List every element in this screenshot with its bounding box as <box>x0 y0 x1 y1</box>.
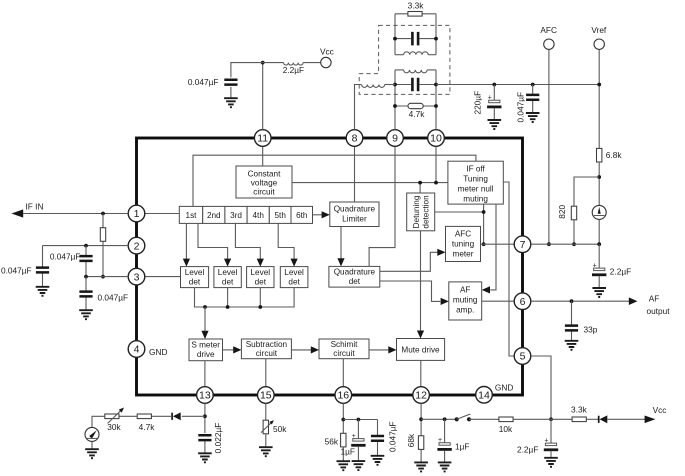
svg-text:GND: GND <box>149 347 167 357</box>
svg-text:4.7k: 4.7k <box>409 109 426 119</box>
junction Vref/tank wire <box>597 83 601 87</box>
svg-text:Tuning: Tuning <box>463 174 488 183</box>
wire diode to Vcc arrow <box>607 418 645 420</box>
capacitor 0.047uF (AFC filter) <box>515 85 539 123</box>
arrow Subtraction circuit to Schimit circuit <box>291 346 319 353</box>
pin 2 <box>128 237 145 254</box>
svg-text:Level: Level <box>185 268 205 277</box>
resistor 10k <box>499 417 513 434</box>
svg-text:0.047µF: 0.047µF <box>50 252 81 262</box>
wire AF muting amp to pin 6 <box>482 300 515 302</box>
svg-text:drive: drive <box>197 350 215 359</box>
meter (tuning meter, vertical needle) <box>592 205 606 219</box>
arrow 2nd amp to Level det 2 <box>198 223 231 266</box>
terminal Vcc (top) <box>320 46 334 67</box>
wire 68k to ground <box>420 449 422 462</box>
svg-text:IF off: IF off <box>466 164 485 173</box>
svg-text:Detuning: Detuning <box>412 195 421 228</box>
dashed enclosure (discriminator block) <box>359 25 450 94</box>
wire IF off box right to pin 5 <box>503 182 514 356</box>
ground (pin3 cap) <box>79 310 93 319</box>
block: Mute drive <box>397 339 445 361</box>
wire pin 1 to 1st amp <box>145 213 179 215</box>
wire coil to tank2 <box>385 84 395 86</box>
wire pin 2 left <box>43 245 129 247</box>
svg-text:56k: 56k <box>325 437 339 447</box>
svg-text:14: 14 <box>478 390 490 402</box>
junction 1uF pin12 <box>443 417 447 421</box>
svg-text:4: 4 <box>134 344 140 356</box>
junction bus/S-meter <box>203 305 207 309</box>
ground (1uF pin12) <box>438 462 452 471</box>
junction 220uF branch <box>492 83 496 87</box>
junction pin5/bottom rail <box>549 417 553 421</box>
wire Detuning detection to IF off vertical <box>435 211 484 213</box>
junction AFC/pin7 wire <box>547 242 551 246</box>
arrow 6th amp to Quadrature Limiter <box>313 211 330 218</box>
inductor secondary winding <box>395 70 436 73</box>
block: Level det 4 <box>280 267 308 288</box>
resistor 68k <box>406 433 424 449</box>
pin 6 <box>514 293 531 310</box>
wire IF off box to pin7 net (vertical) <box>483 204 485 244</box>
block: S meter drive <box>189 339 223 361</box>
svg-text:IF IN: IF IN <box>26 202 44 212</box>
block: amplifier 5th <box>269 206 291 223</box>
wire Subtraction circuit to pin 15 <box>265 359 267 387</box>
junction 4.7k right <box>434 104 438 108</box>
inductor coupling coil (pin 8) <box>362 85 385 88</box>
svg-text:Vref: Vref <box>591 25 607 35</box>
pin 16 <box>335 387 352 404</box>
svg-text:det: det <box>189 278 201 287</box>
svg-text:meter null: meter null <box>458 184 494 193</box>
svg-text:0.047µF: 0.047µF <box>515 92 525 123</box>
diode (S meter) <box>172 412 181 420</box>
ground (S meter) <box>85 441 99 458</box>
block: AFC tuning meter <box>446 226 481 261</box>
svg-text:8: 8 <box>352 133 358 145</box>
svg-text:3rd: 3rd <box>230 211 242 220</box>
svg-text:33p: 33p <box>584 325 598 335</box>
ground (0.047uF AFC) <box>526 113 540 122</box>
resistor 56k <box>325 433 346 447</box>
wire diode to 4.7k <box>137 415 172 417</box>
capacitor 2.2uF electrolytic (pin7) <box>592 244 631 287</box>
block: AF muting amp. <box>449 282 482 320</box>
svg-text:detection: detection <box>422 195 431 229</box>
wire tank2 right side down to pin 10 <box>435 70 437 130</box>
wire 3.3k to diode <box>586 418 598 420</box>
svg-text:7: 7 <box>520 239 526 251</box>
svg-text:GND: GND <box>495 383 513 393</box>
block: Constant voltage circuit <box>236 166 292 198</box>
wire S meter drive to pin 13 <box>204 361 206 387</box>
junction meter/pin7 wire <box>597 242 601 246</box>
ground (far left cap) <box>36 287 50 296</box>
wire 10k to bottom rail <box>513 418 551 420</box>
arrow Schimit circuit to Mute drive <box>369 346 397 353</box>
ground (0.022uF) <box>198 453 212 462</box>
wire switch to 10k <box>469 418 499 420</box>
capacitor 1uF electrolytic (pin12) <box>437 419 469 462</box>
svg-text:0.047µF: 0.047µF <box>388 421 398 452</box>
junction detuning/IFoff vertical <box>482 210 486 214</box>
svg-text:2nd: 2nd <box>207 211 221 220</box>
svg-text:AFC: AFC <box>455 229 471 238</box>
wire bottom rail to 3.3k <box>551 418 572 420</box>
junction Vcc node <box>261 61 265 65</box>
resistor 4.7k <box>395 103 436 119</box>
arrow Quadrature det to AFC tuning meter <box>380 249 446 272</box>
wire pin 8 to Quadrature Limiter <box>354 146 356 202</box>
svg-text:Quadrature: Quadrature <box>334 268 376 277</box>
svg-text:10k: 10k <box>499 424 513 434</box>
wire tank2 left side down to pin 9 <box>394 70 396 130</box>
block: amplifier 1st <box>179 206 202 223</box>
wire Detuning detection top stub <box>419 183 421 193</box>
terminal AFC <box>540 25 557 49</box>
ground (2.2uF pin7) <box>592 288 606 297</box>
ground (33p) <box>565 341 579 350</box>
diode (Vcc feed) <box>599 415 608 423</box>
svg-text:det: det <box>255 278 267 287</box>
resistor 3.3k <box>395 1 436 17</box>
pin 13 <box>197 387 214 404</box>
junction pin3/caps <box>84 275 88 279</box>
svg-text:1st: 1st <box>186 211 198 220</box>
block: Detuning detection (rotated text) <box>407 193 435 231</box>
svg-text:Constant: Constant <box>248 170 281 179</box>
wire pin 13 down <box>204 403 206 433</box>
capacitor 0.022uF <box>198 423 223 454</box>
svg-text:15: 15 <box>260 390 272 402</box>
svg-text:11: 11 <box>257 133 268 145</box>
wire 820 to pin7 net <box>573 220 575 244</box>
svg-text:0.022µF: 0.022µF <box>213 423 223 454</box>
svg-text:S meter: S meter <box>191 341 220 350</box>
pin 7 <box>514 236 531 253</box>
arrow bus to S meter drive <box>201 307 208 339</box>
junction 33p branch <box>570 299 574 303</box>
junction 1uF pin16 <box>357 418 361 422</box>
pin 11 <box>254 130 271 147</box>
wire IF IN to pin 1 <box>23 213 128 215</box>
pin 12 <box>413 387 430 404</box>
svg-text:Quadrature: Quadrature <box>334 205 376 214</box>
svg-text:det: det <box>288 278 300 287</box>
resistor 3.3k (bottom) <box>571 405 588 422</box>
svg-text:16: 16 <box>337 390 349 402</box>
wire pin16 branch rail <box>343 419 377 421</box>
svg-text:Limiter: Limiter <box>342 215 367 224</box>
capacitor 0.047uF (far left) <box>1 246 49 287</box>
ground (50k) <box>259 447 273 456</box>
svg-text:Vcc: Vcc <box>653 405 667 415</box>
svg-text:Level: Level <box>218 268 238 277</box>
block: Quadrature Limiter <box>330 202 379 227</box>
svg-text:output: output <box>646 306 670 316</box>
ground (2.2uF bottom) <box>544 458 558 467</box>
potentiometer 30k <box>105 408 124 432</box>
junction pin10/rail <box>434 181 438 185</box>
IC package outline <box>137 138 523 395</box>
svg-text:det: det <box>349 277 361 286</box>
ground (1uF pin16) <box>352 461 366 470</box>
arrow Quadrature Limiter to Quadrature det <box>337 227 344 267</box>
junction bus/LD2 <box>226 305 230 309</box>
wire 6.8k to meter <box>598 162 600 205</box>
wire meter to pin7 net <box>598 219 600 244</box>
svg-text:det: det <box>222 278 234 287</box>
svg-text:3.3k: 3.3k <box>408 1 425 11</box>
wire 56k to ground <box>342 447 344 461</box>
wire pin 5 external to bottom rail <box>531 356 551 419</box>
svg-text:2.2µF: 2.2µF <box>517 445 538 455</box>
arrow Detuning detection to Mute drive <box>417 231 424 339</box>
wire pin 3 to Level det 1 <box>145 276 181 278</box>
block: Quadrature det <box>329 266 380 287</box>
svg-text:muting: muting <box>463 194 488 203</box>
resistor 6.8k <box>597 148 623 162</box>
svg-text:2: 2 <box>134 240 140 252</box>
pin 5 <box>514 348 531 365</box>
svg-text:68k: 68k <box>406 433 416 447</box>
inductor primary winding <box>395 52 436 55</box>
potentiometer 50k <box>261 420 287 434</box>
terminal IF IN arrow <box>12 202 44 218</box>
junction pin16 branch <box>341 418 345 422</box>
arrow Quadrature det to AF muting amp <box>380 281 449 305</box>
resistor (input, unlabelled) <box>100 214 105 277</box>
capacitor 0.047uF (Vcc bypass) <box>188 77 238 97</box>
arrow IF off box to AF muting amp <box>482 204 496 293</box>
arrow 1st amp to Level det 1 <box>183 223 190 266</box>
wire pin 11 stub to Constant voltage circuit <box>262 146 264 166</box>
wire to 820 <box>574 177 599 206</box>
resistor 820 <box>557 204 577 219</box>
svg-text:circuit: circuit <box>256 349 278 358</box>
junction tank2 cap right <box>434 83 438 87</box>
wire Level det summing bus <box>195 288 295 307</box>
junction IFIN/resistor <box>101 212 105 216</box>
block: amplifier 2nd <box>203 206 225 223</box>
svg-text:4.7k: 4.7k <box>139 422 156 432</box>
ground (Vcc bypass) <box>224 98 238 107</box>
wire pin 11 up <box>262 63 264 130</box>
pin 14 <box>476 387 493 404</box>
switch (muting) <box>455 414 472 421</box>
capacitor 0.047uF (pin2 to pin3) <box>50 246 93 277</box>
capacitor 0.047uF (pin16) <box>371 420 398 456</box>
svg-text:Level: Level <box>251 268 271 277</box>
svg-text:6: 6 <box>520 296 526 308</box>
ground (220uF) <box>488 120 502 129</box>
wire 50k to ground <box>265 434 267 447</box>
svg-text:2.2µF: 2.2µF <box>283 65 304 75</box>
svg-text:0.047µF: 0.047µF <box>188 77 219 87</box>
svg-text:AFC: AFC <box>540 25 557 35</box>
pin 15 <box>258 387 275 404</box>
junction detuning/rail <box>418 181 422 185</box>
svg-text:Schimit: Schimit <box>331 340 359 349</box>
block: IF off Tuning meter null muting <box>448 161 503 204</box>
capacitor 0.047uF (pin3 to gnd) <box>79 277 128 310</box>
wire tank1 right side <box>435 14 437 55</box>
pin 1 <box>128 205 145 222</box>
svg-text:amp.: amp. <box>456 305 474 314</box>
junction 820/pin7 wire <box>572 242 576 246</box>
capacitor 1uF electrolytic (pin16) <box>341 420 366 461</box>
svg-text:muting: muting <box>453 295 478 304</box>
svg-text:3: 3 <box>134 271 140 283</box>
wire node to bypass cap <box>231 63 263 78</box>
block: Level det 3 <box>247 267 274 288</box>
wire pin 6 to AF output <box>531 300 629 302</box>
wire pin 16 down <box>342 403 344 433</box>
junction 0.047uF branch <box>531 83 535 87</box>
svg-text:voltage: voltage <box>251 179 278 188</box>
inductor 2.2uF (Vcc feed) <box>263 63 321 75</box>
pin 10 <box>428 130 445 147</box>
svg-text:0.047µF: 0.047µF <box>1 265 32 275</box>
wire Constant voltage circuit to IF off box (rail) <box>292 182 448 184</box>
svg-text:12: 12 <box>415 390 427 402</box>
block: Level det 1 <box>181 267 209 288</box>
wire tank2 to Vref line <box>436 84 599 86</box>
svg-text:13: 13 <box>199 390 211 402</box>
wire pin 3 left <box>86 276 128 278</box>
junction 820 branch <box>597 175 601 179</box>
wire pin13 branch to diode <box>182 415 205 417</box>
svg-text:Subtraction: Subtraction <box>246 340 288 349</box>
junction bus/LD3 <box>258 305 262 309</box>
arrow 3rd amp to Level det 3 <box>235 223 264 266</box>
svg-text:6th: 6th <box>296 211 308 220</box>
junction resistor/pin3 wire <box>101 275 105 279</box>
junction tank1 cap left <box>393 37 397 41</box>
capacitor 220uF electrolytic <box>472 85 501 120</box>
svg-text:AF: AF <box>460 285 470 294</box>
pin 4 <box>128 341 145 358</box>
svg-text:6.8k: 6.8k <box>606 150 623 160</box>
block: Subtraction circuit <box>241 339 291 359</box>
block: amplifier 3rd <box>225 206 247 223</box>
junction IFoff vertical/pin7 wire <box>482 242 486 246</box>
wire pin 10 stub to rail <box>435 146 437 182</box>
capacitor tank2 <box>395 78 436 92</box>
arrow 5th amp to Level det 4 <box>278 223 298 266</box>
terminal AF output arrow <box>629 293 670 316</box>
svg-text:220µF: 220µF <box>472 91 482 115</box>
wire AFC down to pin7 net <box>548 49 550 244</box>
svg-text:820: 820 <box>557 204 567 218</box>
svg-text:Level: Level <box>284 268 304 277</box>
wire Schimit circuit to pin 16 <box>342 359 344 387</box>
junction pin12 branch <box>419 417 423 421</box>
wire tank1 left side <box>394 14 396 55</box>
capacitor 33p <box>565 301 598 340</box>
svg-text:5: 5 <box>520 351 526 363</box>
ground (68k) <box>414 462 428 471</box>
svg-text:1: 1 <box>134 208 140 220</box>
wire 4.7k to 30k <box>119 415 137 417</box>
junction tank1 cap right <box>434 37 438 41</box>
wire AFC tuning meter to pin 7 <box>481 243 515 245</box>
svg-text:10: 10 <box>430 133 442 145</box>
junction 4.7k left <box>393 104 397 108</box>
wire pin 9 to Quadrature det <box>369 146 395 266</box>
svg-text:1µF: 1µF <box>341 446 355 456</box>
svg-text:9: 9 <box>392 133 398 145</box>
svg-text:tuning: tuning <box>452 239 475 248</box>
svg-text:30k: 30k <box>107 422 121 432</box>
block: amplifier 6th <box>291 206 313 223</box>
svg-text:50k: 50k <box>273 424 287 434</box>
wire Mute drive to pin 12 <box>420 360 422 386</box>
ground (0.047uF pin16) <box>371 456 385 465</box>
capacitor 2.2uF electrolytic (bottom) <box>517 419 558 457</box>
capacitor tank1 <box>395 32 436 46</box>
svg-text:Mute drive: Mute drive <box>401 346 440 355</box>
wire pin 12 down <box>420 403 422 435</box>
pin 3 <box>128 268 145 285</box>
block: amplifier 4th <box>247 206 269 223</box>
block: Level det 2 <box>214 267 241 288</box>
svg-text:5th: 5th <box>275 211 287 220</box>
wire 30k to meter <box>92 416 105 427</box>
svg-text:circuit: circuit <box>253 188 275 197</box>
svg-text:3.3k: 3.3k <box>571 405 588 415</box>
wire pin 15 down <box>265 403 267 420</box>
junction pin13 branch <box>203 414 207 418</box>
pin 8 <box>346 130 363 147</box>
svg-text:0.047µF: 0.047µF <box>98 293 129 303</box>
wire pin 7 external <box>531 243 599 245</box>
pin 9 <box>387 130 404 147</box>
meter (S meter, diagonal needle) <box>85 427 99 441</box>
ground (56k) <box>337 461 351 470</box>
wire top rail 1st-amp to IF off box top <box>193 155 476 206</box>
junction pin2 wire/cap branch <box>84 244 88 248</box>
svg-text:AF: AF <box>649 293 660 303</box>
arrow S meter drive to Subtraction circuit <box>223 346 242 353</box>
svg-text:2.2µF: 2.2µF <box>610 266 631 276</box>
wire pin 8 up <box>355 85 362 130</box>
terminal Vcc arrow (bottom) <box>645 405 667 423</box>
svg-text:4th: 4th <box>253 211 265 220</box>
wire pin12 to switch <box>421 418 457 420</box>
resistor 4.7k (S meter) <box>137 414 155 432</box>
svg-text:circuit: circuit <box>333 349 355 358</box>
terminal Vref <box>591 25 607 49</box>
svg-text:Vcc: Vcc <box>320 46 334 56</box>
junction tank2 cap left <box>393 83 397 87</box>
wire Vref down <box>598 49 600 148</box>
svg-text:1µF: 1µF <box>455 441 469 451</box>
svg-text:meter: meter <box>453 249 474 258</box>
block: Schimit circuit <box>319 339 369 359</box>
